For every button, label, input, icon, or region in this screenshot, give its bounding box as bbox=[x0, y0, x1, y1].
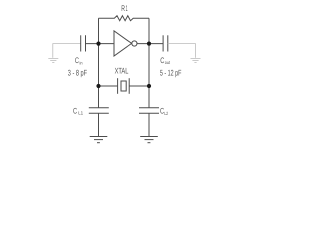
ground (right small) bbox=[191, 58, 201, 62]
ground (bottom left) bbox=[90, 137, 108, 143]
wire: inverter output to Cout bbox=[137, 43, 163, 45]
wire: Cout to right ground branch (light) bbox=[168, 44, 196, 58]
svg-text:C: C bbox=[73, 106, 77, 115]
svg-text:L2: L2 bbox=[164, 111, 168, 116]
ground (bottom right) bbox=[140, 137, 158, 143]
svg-text:XTAL: XTAL bbox=[115, 66, 129, 75]
ground (left small) bbox=[48, 58, 58, 62]
wire: feedback loop right vertical (node B) bbox=[148, 18, 150, 108]
op-amp U1 inverter triangle bbox=[114, 31, 132, 56]
node: junction dot left input bbox=[96, 42, 100, 46]
wire: CL2 to ground bbox=[148, 113, 150, 136]
wire: input net to C_in ground branch (light) bbox=[53, 44, 81, 58]
resistor R1 bbox=[99, 16, 150, 21]
node: junction dot right output bbox=[147, 42, 151, 46]
crystal XTAL bbox=[118, 78, 130, 94]
inverter bubble bbox=[132, 41, 137, 46]
capacitor Cout bbox=[163, 35, 168, 51]
node: junction dot crystal left bbox=[96, 84, 100, 88]
svg-text:out: out bbox=[165, 60, 171, 65]
svg-text:in: in bbox=[80, 60, 83, 65]
svg-text:L1: L1 bbox=[78, 111, 83, 116]
svg-text:3 - 8 pF: 3 - 8 pF bbox=[68, 68, 87, 77]
svg-text:1: 1 bbox=[126, 4, 128, 13]
svg-text:5 - 12 pF: 5 - 12 pF bbox=[160, 69, 182, 78]
wire: Cin to inverter input bbox=[86, 43, 115, 45]
wire: CL1 to ground bbox=[98, 113, 100, 136]
svg-text:R: R bbox=[121, 4, 125, 13]
node: junction dot crystal right bbox=[147, 84, 151, 88]
capacitor CL1 bbox=[89, 108, 109, 114]
wire: feedback loop left vertical (node A) bbox=[98, 18, 100, 108]
wire: crystal left lead bbox=[99, 85, 118, 87]
wire: crystal right lead bbox=[129, 85, 149, 87]
capacitor Cin bbox=[81, 35, 86, 51]
capacitor CL2 bbox=[139, 108, 159, 114]
